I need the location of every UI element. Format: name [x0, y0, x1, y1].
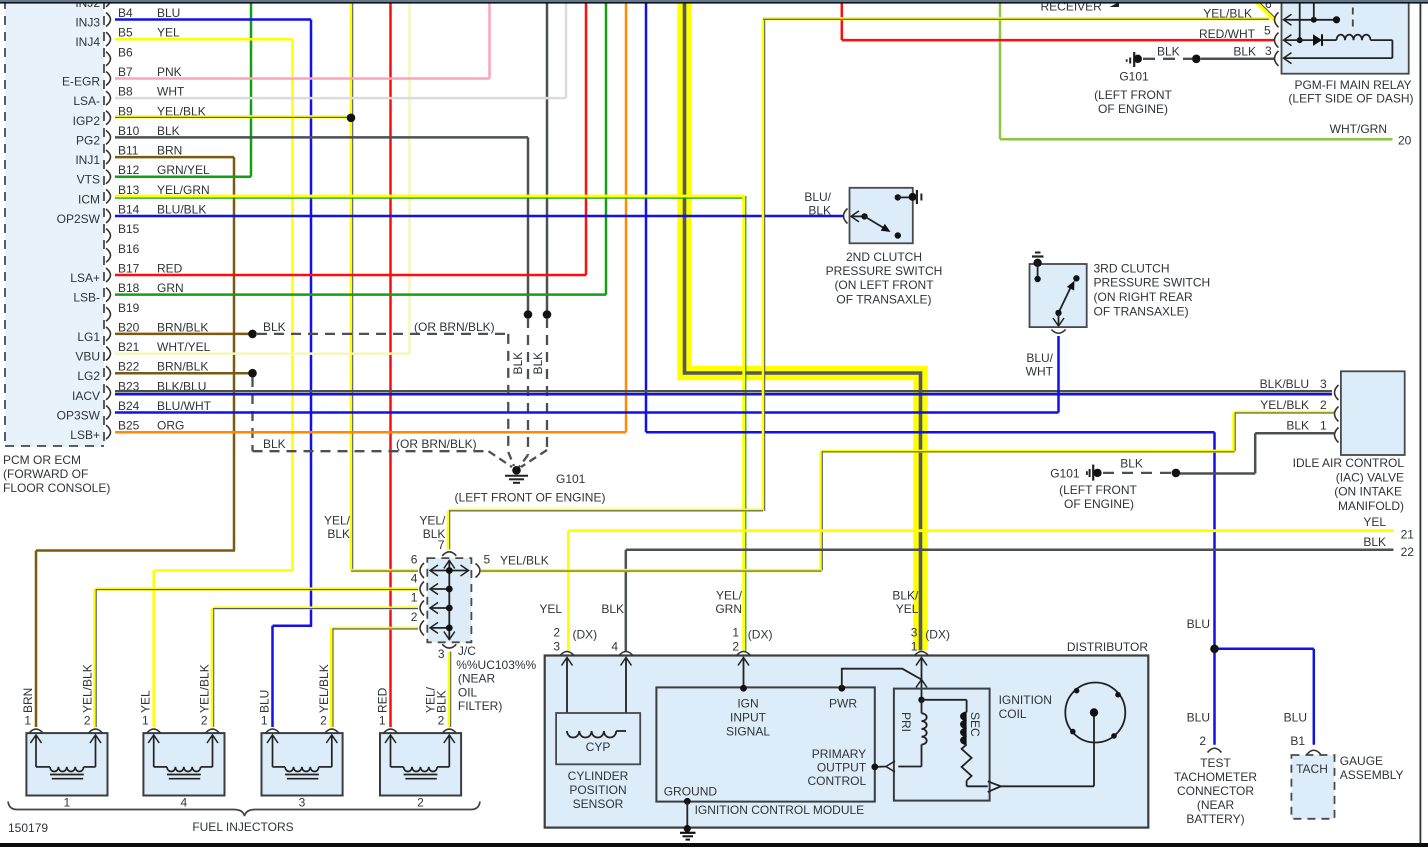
wire B17 RED horizontal: [115, 274, 586, 277]
svg-text:BLU: BLU: [1284, 711, 1307, 725]
label YEL/BLK (B9 vert): [324, 514, 351, 542]
wire B10 BLK: [115, 137, 528, 314]
label PRIMARY OUTPUT CONTROL: [808, 747, 867, 788]
pin B18 LSB-: [73, 281, 183, 305]
svg-text:2: 2: [1320, 398, 1327, 412]
svg-text:(LEFT SIDE OF DASH): (LEFT SIDE OF DASH): [1288, 92, 1413, 106]
3rd clutch pressure switch box: [1030, 264, 1087, 327]
wire B7 PNK vertical: [488, 2, 491, 79]
svg-text:INPUT: INPUT: [730, 711, 767, 725]
svg-text:WHT/GRN: WHT/GRN: [1330, 122, 1387, 136]
label 150179: [8, 821, 48, 835]
label CYLINDER POSITION SENSOR: [568, 769, 629, 811]
wire PWR to coil: [842, 669, 922, 689]
svg-text:BLK: BLK: [1363, 535, 1386, 549]
svg-text:BRN/BLK: BRN/BLK: [157, 360, 208, 374]
svg-text:B10: B10: [118, 124, 140, 138]
svg-text:FILTER): FILTER): [458, 699, 502, 713]
svg-text:1: 1: [261, 714, 268, 728]
svg-text:FUEL INJECTORS: FUEL INJECTORS: [192, 820, 293, 834]
CYP sensor box: [556, 713, 640, 764]
wire BLK/YEL thick: vertical from top, to distributor: [685, 2, 921, 651]
svg-text:INJ1: INJ1: [75, 153, 100, 167]
svg-text:B25: B25: [118, 419, 140, 433]
wire J/C1 YEL/BLK to injector4: [212, 608, 418, 727]
pin B21 VBU: [75, 340, 210, 364]
junction BLK relay3: [1192, 55, 1201, 64]
svg-text:PRESSURE SWITCH: PRESSURE SWITCH: [1094, 276, 1211, 290]
label BLK/YEL 3 (DX) 1: [892, 589, 950, 654]
svg-text:BLK: BLK: [327, 527, 350, 541]
label BLK 1: [1286, 419, 1327, 433]
junction BLK x528: [524, 310, 533, 319]
label GAUGE ASSEMBLY: [1340, 754, 1404, 782]
svg-text:LSA-: LSA-: [73, 94, 100, 108]
IAC pin 3 arc: [1335, 385, 1339, 400]
svg-text:LG2: LG2: [77, 369, 100, 383]
svg-text:B15: B15: [118, 222, 140, 236]
svg-text:OF TRANSAXLE): OF TRANSAXLE): [1094, 305, 1189, 319]
svg-text:PRESSURE SWITCH: PRESSURE SWITCH: [826, 264, 943, 278]
wire J/C3 YEL/BLK vertical to injector2: [449, 652, 451, 728]
svg-text:ASSEMBLY: ASSEMBLY: [1340, 768, 1404, 782]
coil SEC resistor: [962, 744, 988, 786]
label TEST TACHOMETER CONNECTOR (NEAR BATTERY): [1174, 756, 1257, 826]
svg-text:BRN/BLK: BRN/BLK: [157, 320, 208, 334]
pin B5 INJ4: [75, 26, 180, 50]
label 5 YEL/BLK: [500, 554, 549, 568]
svg-text:BLK: BLK: [263, 437, 286, 451]
wire B5 YEL: [115, 39, 293, 727]
wire J/C2 YEL/BLK to injector3: [331, 628, 418, 727]
svg-text:SIGNAL: SIGNAL: [726, 725, 770, 739]
label YEL 21: [1363, 515, 1414, 542]
svg-text:SEC: SEC: [968, 712, 982, 737]
svg-text:YEL/BLK: YEL/BLK: [1260, 398, 1309, 412]
injector 3 pin numbers: [261, 714, 327, 728]
relay PGM-FI MAIN RELAY box: [1282, 2, 1409, 74]
svg-text:21: 21: [1401, 528, 1415, 542]
wire B14 BLU/BLK: [115, 215, 843, 218]
svg-text:YEL/: YEL/: [419, 514, 446, 528]
label IGNITION COIL: [999, 693, 1052, 721]
svg-text:2: 2: [84, 714, 91, 728]
svg-text:3: 3: [299, 796, 306, 810]
injector 2 pin numbers: [379, 714, 445, 728]
svg-text:2: 2: [417, 796, 424, 810]
svg-text:(IAC) VALVE: (IAC) VALVE: [1336, 470, 1404, 484]
svg-text:3RD CLUTCH: 3RD CLUTCH: [1094, 262, 1170, 276]
pin B13 ICM: [78, 183, 210, 207]
svg-text:CONNECTOR: CONNECTOR: [1177, 784, 1254, 798]
gauge connector arc: [1307, 750, 1321, 754]
label WHT/GRN: [1330, 122, 1387, 136]
pin B10 PG2: [76, 124, 180, 148]
svg-text:IGN: IGN: [737, 697, 758, 711]
svg-text:PNK: PNK: [157, 65, 182, 79]
label PGM-FI MAIN RELAY: [1288, 78, 1413, 106]
svg-text:TACH: TACH: [1296, 762, 1328, 776]
label BLU (gauge): [1284, 711, 1307, 725]
svg-text:B11: B11: [118, 144, 139, 158]
wire B7 PNK: [115, 77, 490, 80]
svg-text:2: 2: [438, 714, 445, 728]
J/C pin 5 arc: [476, 553, 491, 578]
svg-text:4: 4: [181, 796, 188, 810]
svg-text:B7: B7: [118, 65, 133, 79]
svg-text:BLK: BLK: [157, 124, 180, 138]
svg-text:PGM-FI MAIN RELAY: PGM-FI MAIN RELAY: [1294, 78, 1411, 92]
svg-text:(DX): (DX): [748, 628, 773, 642]
bottom frame bar: [0, 843, 1428, 847]
svg-text:YEL: YEL: [896, 602, 919, 616]
svg-text:1: 1: [379, 714, 386, 728]
label IGNITION CONTROL MODULE: [695, 803, 865, 817]
wire BLK dashed x547 to G101: [521, 318, 547, 467]
junction BLK x547: [543, 310, 552, 319]
label BLK rotated x518: [511, 352, 525, 375]
svg-text:2: 2: [732, 640, 739, 654]
wire YEL/BLK J/C7 to relay6: [449, 20, 765, 512]
svg-text:SENSOR: SENSOR: [573, 797, 624, 811]
svg-text:3: 3: [438, 647, 445, 661]
wire RED vertical to injector 2: [389, 2, 392, 728]
svg-text:(ON RIGHT REAR: (ON RIGHT REAR: [1094, 290, 1193, 304]
svg-text:YEL/BLK: YEL/BLK: [317, 664, 331, 713]
svg-text:GRN/YEL: GRN/YEL: [157, 163, 210, 177]
svg-text:BLK/BLU: BLK/BLU: [1260, 377, 1309, 391]
top frame bar: [0, 0, 1428, 4]
label BLK on B22 dashed: [263, 437, 286, 451]
svg-text:BLK: BLK: [423, 527, 446, 541]
wire B20 BLK dashed to G101: [257, 334, 514, 466]
svg-text:B16: B16: [118, 242, 140, 256]
svg-text:BATTERY): BATTERY): [1186, 812, 1244, 826]
svg-text:2: 2: [553, 626, 560, 640]
wire B21 WHT/YEL vertical: [408, 2, 411, 354]
wire B22 BRN/BLK: [115, 372, 253, 375]
relay coil: [1284, 35, 1393, 59]
injector 2 wire color labels: [376, 686, 449, 713]
label BLK (G101 top dashed): [1157, 45, 1180, 59]
pin B20 LG1: [77, 320, 208, 344]
wire BLK dashed to G101 right: [1103, 472, 1171, 474]
svg-text:VBU: VBU: [75, 350, 100, 364]
svg-text:IDLE AIR CONTROL: IDLE AIR CONTROL: [1293, 456, 1405, 470]
wire B17 RED vertical: [585, 2, 588, 276]
distributor cap circle: [1065, 683, 1125, 743]
svg-text:INJ4: INJ4: [75, 35, 100, 49]
label G101 right: [1050, 466, 1080, 480]
fuel injector 3 box: [262, 729, 343, 795]
wire YEL/BLK relay6 diagonal from top: [1256, 1, 1276, 20]
svg-text:G101: G101: [1050, 466, 1080, 480]
svg-text:ORG: ORG: [157, 419, 184, 433]
2nd clutch wire arc: [844, 209, 860, 224]
PCM/ECM connector panel: [5, 0, 104, 447]
svg-text:WHT/YEL: WHT/YEL: [157, 340, 211, 354]
label YEL 2 (DX) 3: [539, 602, 597, 654]
svg-text:CONTROL: CONTROL: [808, 774, 867, 788]
junction B20: [248, 330, 257, 339]
2nd clutch ground contact: [895, 190, 922, 204]
svg-text:YEL/BLK: YEL/BLK: [198, 664, 212, 713]
injector 1 pin numbers: [24, 714, 91, 728]
svg-text:3: 3: [911, 626, 918, 640]
label 2 (tach pin): [1199, 734, 1206, 748]
pin B8 LSA-: [73, 85, 185, 109]
wire B21 WHT/YEL horizontal: [115, 352, 410, 355]
ground G101 (top): [1127, 52, 1142, 67]
svg-text:LG1: LG1: [77, 330, 100, 344]
svg-text:J/C: J/C: [458, 644, 476, 658]
J/C pin 2 arc: [411, 610, 424, 635]
svg-text:FLOOR CONSOLE): FLOOR CONSOLE): [3, 481, 110, 495]
svg-text:1: 1: [411, 591, 418, 605]
J/C internal bus: [430, 560, 469, 640]
label YEL/GRN 1 (DX) 2: [715, 589, 772, 654]
relay internal vertical 1: [1297, 3, 1303, 43]
wire YEL to 21: [568, 529, 1393, 532]
label YEL/BLK (J/C7): [419, 514, 446, 542]
ignition coil box: [894, 689, 990, 801]
label 20: [1398, 134, 1412, 148]
svg-text:CYLINDER: CYLINDER: [568, 769, 629, 783]
svg-text:G101: G101: [556, 472, 586, 486]
wire B12 GRN/YEL vertical: [250, 2, 253, 177]
svg-text:1: 1: [142, 714, 149, 728]
J/C pin 7 arc: [438, 538, 456, 556]
svg-text:%%UC103%%: %%UC103%%: [456, 658, 536, 672]
svg-text:B14: B14: [118, 203, 140, 217]
wire B20 BRN/BLK: [115, 333, 253, 336]
3rd clutch bottom arc: [1051, 330, 1065, 334]
J/C pin 3 arc: [438, 644, 456, 661]
svg-text:B22: B22: [118, 360, 140, 374]
coil PRI winding: [922, 700, 927, 767]
injector 4 wire color labels: [139, 664, 212, 713]
svg-text:PG2: PG2: [76, 133, 100, 147]
3rd clutch ground symbol: [1032, 253, 1044, 267]
svg-text:BLK: BLK: [808, 204, 831, 218]
wire B18 GRN horizontal: [115, 293, 606, 296]
label BLK on B20 dashed: [263, 320, 286, 334]
svg-text:BLK: BLK: [1120, 456, 1143, 470]
svg-text:GROUND: GROUND: [664, 785, 718, 799]
svg-text:GRN: GRN: [715, 602, 742, 616]
svg-text:G101: G101: [1119, 70, 1149, 84]
label BLK 3 (relay pin3): [1233, 44, 1272, 59]
wire YEL down to CYP pin3: [567, 531, 570, 652]
label BLU/BLK (2nd clutch): [804, 190, 831, 218]
svg-text:BLU: BLU: [1187, 617, 1210, 631]
svg-text:BLU: BLU: [1187, 711, 1210, 725]
junction B22: [248, 369, 257, 378]
2nd clutch switch contacts: [851, 213, 901, 239]
label (LEFT FRONT / OF ENGINE) right: [1059, 483, 1137, 511]
wire J/C5 YEL/BLK: [481, 569, 822, 573]
svg-text:1: 1: [24, 714, 31, 728]
pin B25 LSB+: [70, 419, 184, 443]
svg-text:(LEFT FRONT OF ENGINE): (LEFT FRONT OF ENGINE): [455, 491, 606, 505]
pin B3 INJ2: [75, 0, 110, 10]
wire RED/WHT to relay5: [842, 39, 1274, 42]
wire J/C4 YEL/BLK to injector1: [95, 589, 419, 727]
injector 3 wire color labels: [258, 664, 331, 713]
relay internal dashed vertical: [1352, 8, 1354, 32]
svg-text:IACV: IACV: [72, 389, 100, 403]
fuel injector 4 box: [143, 729, 224, 795]
svg-text:BRN: BRN: [157, 144, 182, 158]
svg-text:B6: B6: [118, 45, 133, 59]
wire BLK dashed G101 top: [1143, 58, 1192, 60]
wire BLK to 22: [626, 549, 1394, 552]
svg-text:B17: B17: [118, 261, 140, 275]
label (OR BRN/BLK) on B22 dashed: [396, 437, 477, 451]
svg-text:B12: B12: [118, 163, 140, 177]
wire WHT/GRN vertical: [999, 2, 1002, 140]
svg-text:3: 3: [1265, 44, 1272, 58]
label (OR BRN/BLK) on B20 dashed: [414, 320, 495, 334]
svg-text:(OR BRN/BLK): (OR BRN/BLK): [396, 437, 477, 451]
svg-text:YEL/BLK: YEL/BLK: [81, 664, 95, 713]
wire B8 WHT: [115, 97, 566, 100]
svg-text:BLK: BLK: [1233, 45, 1256, 59]
injector 3 label: [299, 796, 306, 810]
svg-text:OF ENGINE): OF ENGINE): [1098, 102, 1168, 116]
junction B9: [347, 114, 356, 123]
svg-text:22: 22: [1401, 545, 1415, 559]
svg-text:OF ENGINE): OF ENGINE): [1064, 497, 1134, 511]
svg-text:B4: B4: [118, 6, 133, 20]
svg-text:BLU/: BLU/: [804, 190, 831, 204]
svg-text:B24: B24: [118, 399, 140, 413]
label BLK/BLU 3: [1260, 377, 1327, 391]
svg-text:BLU: BLU: [157, 6, 180, 20]
svg-text:3: 3: [1320, 377, 1327, 391]
fuel injector 1 box: [26, 729, 107, 795]
wire B23 BLK/BLU: [115, 391, 1332, 394]
svg-text:RED: RED: [376, 687, 390, 713]
svg-text:IGP2: IGP2: [73, 114, 101, 128]
label PRI: [899, 712, 913, 732]
svg-text:150179: 150179: [8, 821, 48, 835]
label DISTRIBUTOR: [1067, 640, 1148, 654]
pin B15: [106, 222, 140, 243]
injector 1 wire color labels: [21, 664, 95, 713]
label CYP: [586, 740, 611, 754]
svg-text:BLK: BLK: [511, 352, 525, 375]
wire WHT/GRN horizontal to 20: [1000, 138, 1393, 141]
wire BLK vertical x=547: [546, 2, 549, 315]
label SEC: [968, 712, 982, 737]
label BLK 22: [1363, 535, 1414, 559]
ground G101 (right): [1087, 465, 1102, 481]
CYP pin 4 entry: [619, 652, 633, 732]
svg-text:1: 1: [64, 796, 71, 810]
pin B22 LG2: [77, 360, 208, 384]
label BLU (above junction): [1187, 617, 1210, 631]
svg-text:2: 2: [201, 714, 208, 728]
svg-text:(DX): (DX): [573, 628, 598, 642]
svg-text:BLK: BLK: [531, 352, 545, 375]
svg-text:OF TRANSAXLE): OF TRANSAXLE): [836, 293, 931, 307]
svg-text:(LEFT FRONT: (LEFT FRONT: [1059, 483, 1137, 497]
wire BLU to tach/gauge: [646, 432, 1314, 745]
wire B25 ORG horizontal: [115, 431, 626, 434]
svg-text:2: 2: [1199, 734, 1206, 748]
svg-text:(LEFT FRONT: (LEFT FRONT: [1094, 88, 1172, 102]
ground G101 (mid): [505, 466, 528, 483]
3rd clutch contacts: [1034, 263, 1079, 326]
svg-text:LSA+: LSA+: [70, 271, 100, 285]
label J/C %%UC103%% (NEAR OIL FILTER): [456, 644, 536, 713]
svg-text:B5: B5: [118, 26, 133, 40]
svg-text:3: 3: [553, 640, 560, 654]
coil SEC winding: [922, 700, 967, 745]
svg-text:4: 4: [411, 572, 418, 586]
wire YEL/BLK relay6 horizontal: [763, 17, 1269, 21]
pin B9 IGP2: [73, 104, 206, 128]
junction BLU tach: [1210, 645, 1219, 654]
wire BLK dashed x528 to G101: [519, 318, 528, 467]
wire B8 WHT vertical: [565, 2, 568, 99]
tach connector arc: [1208, 748, 1222, 752]
svg-text:PRIMARY: PRIMARY: [812, 747, 866, 761]
svg-text:BLK: BLK: [601, 602, 624, 616]
label FUEL INJECTORS: [192, 820, 293, 834]
J/C pin 6 arc: [411, 553, 424, 579]
svg-text:5: 5: [484, 553, 491, 567]
svg-text:YEL/: YEL/: [324, 514, 351, 528]
2nd clutch pressure switch box: [850, 188, 913, 244]
relay pin 3 arc: [1275, 51, 1292, 66]
svg-text:IGNITION: IGNITION: [999, 693, 1052, 707]
svg-text:TEST: TEST: [1200, 756, 1231, 770]
relay diode: [1284, 34, 1337, 46]
wire B9 YEL/BLK vertical: [351, 2, 353, 571]
junction connector J/C box: [427, 558, 471, 642]
svg-text:YEL: YEL: [139, 690, 153, 713]
label TACH: [1296, 762, 1328, 776]
svg-text:YEL/BLK: YEL/BLK: [500, 554, 549, 568]
wire BLK IAC pin1: [1180, 433, 1334, 473]
svg-text:YEL/: YEL/: [716, 589, 743, 603]
svg-text:BLU/WHT: BLU/WHT: [157, 399, 212, 413]
svg-text:POSITION: POSITION: [569, 783, 626, 797]
wire B22 BLK dashed to G101: [253, 377, 513, 467]
svg-text:BLK: BLK: [434, 690, 448, 713]
label RED/WHT 5: [1199, 24, 1271, 42]
svg-text:(NEAR: (NEAR: [458, 672, 496, 686]
pin B19: [106, 301, 140, 322]
label YEL/BLK 2: [1260, 398, 1327, 412]
svg-text:5: 5: [1264, 24, 1271, 38]
injector 2 label: [417, 796, 424, 810]
gauge assembly TACH box: [1291, 755, 1334, 819]
svg-text:BLU: BLU: [258, 690, 272, 713]
svg-text:1: 1: [732, 626, 739, 640]
wire B24 BLU/WHT: [115, 336, 1059, 413]
injector 1 label: [64, 796, 71, 810]
svg-text:BLK/: BLK/: [892, 589, 919, 603]
wire B18 GRN vertical: [605, 2, 608, 295]
label BLU (tach): [1187, 711, 1210, 725]
svg-text:BLK: BLK: [1157, 45, 1180, 59]
label BLK 4: [601, 602, 624, 654]
BLK/YEL entry to coil: [915, 652, 929, 704]
wire B9 YEL/BLK horizontal: [115, 115, 351, 119]
